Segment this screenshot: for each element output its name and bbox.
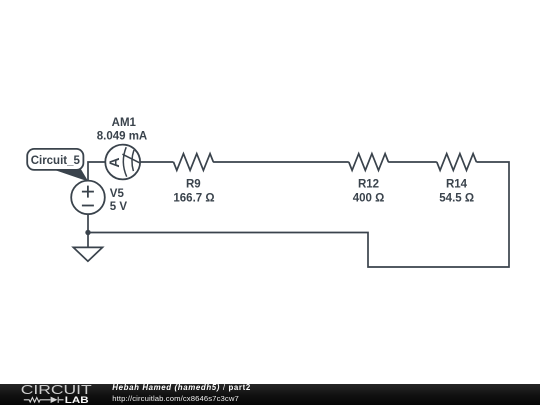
svg-text:R9: R9 <box>186 179 201 191</box>
svg-text:V5: V5 <box>110 188 125 200</box>
svg-text:R14: R14 <box>446 179 468 191</box>
svg-text:http://circuitlab.com/cx8646s7: http://circuitlab.com/cx8646s7c3cw7 <box>112 394 239 403</box>
svg-text:Circuit_5: Circuit_5 <box>31 155 81 167</box>
svg-text:AM1: AM1 <box>112 117 137 129</box>
svg-text:54.5 Ω: 54.5 Ω <box>439 193 474 205</box>
svg-text:166.7 Ω: 166.7 Ω <box>173 193 214 205</box>
svg-text:A: A <box>106 158 122 168</box>
svg-text:8.049 mA: 8.049 mA <box>97 130 148 142</box>
svg-text:400 Ω: 400 Ω <box>353 193 385 205</box>
svg-text:5 V: 5 V <box>110 201 128 213</box>
svg-text:LAB: LAB <box>65 395 89 405</box>
svg-text:Hebah Hamed (hamedh5) / part2: Hebah Hamed (hamedh5) / part2 <box>112 384 251 392</box>
svg-text:R12: R12 <box>358 179 379 191</box>
